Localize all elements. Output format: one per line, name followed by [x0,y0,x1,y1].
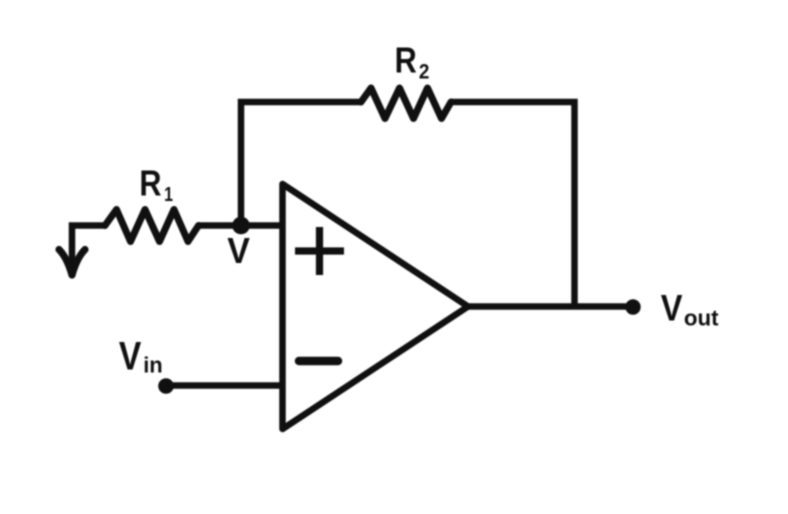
svg-text:2: 2 [419,60,430,83]
op-amp U1 [283,184,469,429]
wire [199,222,283,229]
wire [72,226,105,269]
wire [241,102,361,226]
svg-text:V: V [661,287,683,329]
op-amp noninverting + symbol [295,227,344,275]
svg-text:out: out [684,305,719,330]
svg-text:V: V [227,231,250,271]
resistor R2 [361,88,451,119]
node Vin dot [158,378,174,394]
svg-text:V: V [119,334,142,378]
svg-text:R: R [395,40,417,81]
wire [468,303,633,310]
node V junction dot [232,217,250,235]
wire [166,382,282,389]
wire [451,102,575,307]
svg-text:1: 1 [164,182,173,205]
svg-text:in: in [143,352,163,377]
op-amp inverting - symbol [299,357,338,366]
svg-text:R: R [139,163,161,204]
resistor R1 [105,210,199,242]
node Vout dot [625,299,640,314]
ground arrow [59,250,85,276]
